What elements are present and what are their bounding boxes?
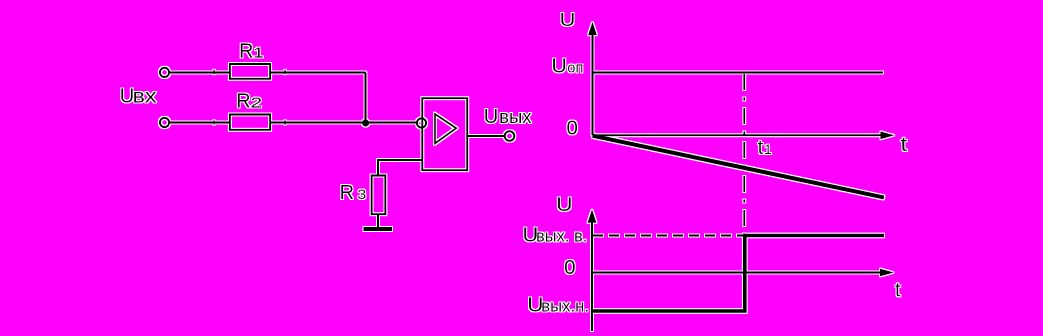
svg-text:1: 1	[253, 45, 264, 62]
svg-text:t: t	[758, 137, 764, 159]
svg-text:R: R	[236, 91, 250, 113]
svg-text:U: U	[556, 195, 572, 216]
svg-text:U: U	[560, 10, 576, 30]
svg-text:R: R	[340, 182, 354, 204]
svg-text:1: 1	[764, 141, 772, 157]
svg-text:вых: вых	[499, 107, 531, 127]
svg-text:вых.н.: вых.н.	[541, 297, 589, 316]
svg-text:R: R	[239, 41, 253, 63]
svg-text:вх: вх	[133, 86, 158, 107]
svg-text:вых. в.: вых. в.	[536, 226, 587, 245]
svg-text:0: 0	[567, 117, 578, 139]
svg-text:0: 0	[564, 257, 575, 279]
svg-text:t: t	[900, 134, 907, 156]
svg-text:t: t	[895, 280, 901, 302]
svg-text:U: U	[484, 106, 498, 128]
svg-text:U: U	[551, 55, 567, 77]
svg-text:2: 2	[250, 96, 262, 112]
svg-text:оп: оп	[567, 59, 583, 76]
svg-text:3: 3	[357, 186, 366, 202]
